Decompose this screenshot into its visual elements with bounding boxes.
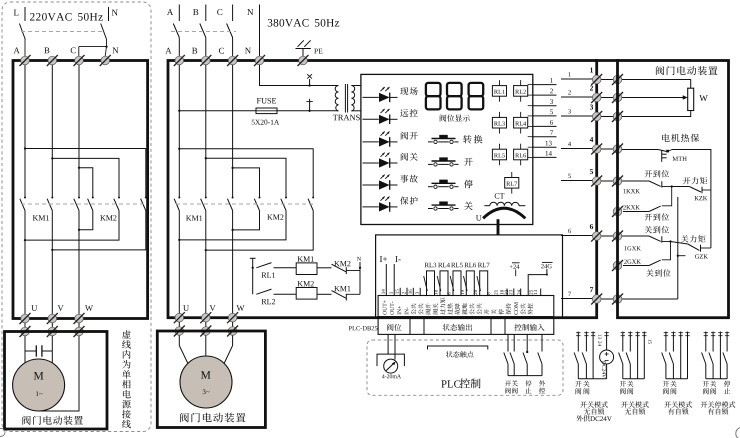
fuse feed from phase A [178,110,256,112]
terminal strip labels [383,298,533,315]
interlock NC contact KM1 [332,286,361,301]
motor1 enclosure box [5,332,108,430]
label KM1 (main) [186,216,202,221]
disconnect switch phase B [200,24,206,57]
dashed enclosure PLC control [367,340,563,395]
torque switch GZK [671,242,711,259]
terminal 7 (cabinet side) [591,294,602,305]
valve actuator box (right) [618,61,729,318]
wire V output (main) [205,211,207,318]
wire V output (phase B) [51,211,53,319]
wires between terminal columns [601,80,614,300]
label 380VAC 50Hz [268,19,339,27]
contactor KM1 contacts (left box, 3 poles) [20,197,80,211]
KM2 pole1 join C (main) [231,211,259,232]
LED indicator 阀开 [363,132,418,147]
stub wires to motor box [25,323,79,328]
wire phase C (main) [232,65,234,198]
contactor coil KM2 [296,281,317,299]
page marker circle bottom-right [736,427,740,438]
dashed enclosure: single-phase wiring region [2,2,151,432]
jumper A to KM2 pole3 [24,147,146,197]
terminal 2GXK (actuator side) [612,260,623,271]
wire W output (phase C) [78,211,80,319]
limit switch 1KXK [622,181,672,193]
PE earth symbol [296,40,323,56]
control input switch 开阀 [504,334,508,375]
label open-limit 开到位 [645,170,669,177]
wire row2 to pot wiper [622,95,688,99]
wire U output (main) [178,211,180,318]
terminal W (main bottom) [227,312,238,323]
wire W output (main) [232,211,234,318]
label RL1 [262,273,275,278]
terminal W (motor1 box) [74,326,85,337]
pushbutton 关 [428,202,473,211]
left contactor box (single-phase) [13,61,148,319]
LED indicator 现场 [363,87,418,102]
wire phase C down [78,65,80,198]
label valve position display [440,114,470,121]
label KM1 (left) [33,215,49,220]
label valve actuator (right box) [656,66,718,75]
transformer TRANS [333,84,361,120]
KM2 pole3 output join B [51,211,146,252]
pushbutton 转换 [428,135,483,144]
label close-torque 关力矩 [681,235,706,242]
terminal U (motor2 box) [174,326,185,337]
relay output contact RL6 [464,263,477,296]
bridge segment top edge [595,59,619,62]
terminal B (left box top) [47,55,58,66]
LED indicator 阀关 [363,153,418,168]
wire row3 to pot bottom [622,111,691,117]
wire phase B down [51,65,53,198]
LED indicator 保护 [363,197,418,212]
terminal strip box [378,296,554,317]
switch-mode wiring example 2 (no latch) [619,332,652,415]
terminal U (motor1 box) [20,326,31,337]
wire coil KM2 to KM1 NC [317,293,332,295]
terminal 2 (cabinet side) [591,92,602,103]
label motor2 valve actuator [180,413,246,423]
switch-mode wiring example 3 (latched) [662,332,692,415]
pushbutton 开 [428,158,473,166]
terminal 7 (actuator side) [612,294,623,305]
relay output contact RL7 [477,263,490,296]
label KM2 (left) [100,215,116,220]
contactor KM1 contacts (main box, 3 poles) [174,197,234,211]
switch-stop-mode wiring example 4 (latched) [701,332,735,415]
wire V to motor1 [51,336,53,363]
PLC interface box [376,235,563,319]
wire U output (phase A) [24,211,26,319]
jumper C to KM2 pole1 (main) [231,167,259,198]
wire phase A (main) [178,65,180,198]
phase tap symbol (coil circuit left) [250,258,256,262]
motor M1 (single phase) [13,359,65,411]
terminal 4 (actuator side) [612,144,623,155]
terminal W (motor2 box) [227,326,238,337]
LED indicator 事故 [363,175,418,190]
wire fuse to transformer [277,110,339,112]
terminal 6 (cabinet side) [591,231,602,242]
7-segment display digit 3 [469,83,484,110]
chassis tap X on N wire [307,74,312,86]
wire MTH to common [672,149,711,151]
stub wires control terminals [507,289,541,296]
terminal 2KXK (actuator side) [612,206,623,217]
label I+ / I- [380,256,401,262]
terminal N (main box) [254,55,265,66]
terminal V (motor1 box) [47,326,58,337]
wire phase A down [24,65,26,198]
display panel box [361,74,533,224]
note: dashed area is single-phase supply wiring (vertical text) [122,330,131,428]
wire N to transformer [260,65,339,86]
terminal A (left box top) [20,55,31,66]
terminal 3 (actuator side) [612,111,623,122]
torque switch KZK [672,187,711,201]
labels U V W (left box outputs) [31,305,93,311]
page marker circle bottom-left [0,428,5,436]
terminal 4 (cabinet side) [591,144,602,155]
terminal 2 (actuator side) [612,92,623,103]
labels U V W (main outputs) [183,305,244,311]
control input common bar [508,375,542,377]
terminal N (left box top) [100,55,111,66]
switch-mode wiring example 1 (no latch, ext DC24V) [574,332,614,422]
relay RL1 [492,80,506,102]
jumper B to KM2 pole2 [51,157,119,197]
jumper B to KM2 pole2 (main) [205,157,286,197]
+24 supply terminal [510,263,520,276]
mechanical linkage (dashed) KM1-KM2 main [176,203,316,205]
coil circuit left bus [252,262,254,294]
label close-limit 关到位 [645,226,669,233]
24G supply terminal [528,262,552,295]
mechanical linkage (dashed) main switch [171,31,236,33]
label RL2 [262,299,276,304]
wire phase B (main) [205,65,207,198]
relay RL4 [514,112,528,134]
wire U to motor2 [179,336,188,364]
relay RL5 [492,144,506,166]
control input switch 关阀 [510,334,514,375]
terminal 5 (actuator side) [612,176,623,187]
disconnect switch phase C [227,24,233,57]
motor M2 (three phase) [180,356,232,408]
stub wires to motor2 [179,322,232,327]
fuse FUSE 5X20-1A [252,98,279,125]
control input switch 外控 [538,334,542,375]
node N (coil circuit right) [357,257,361,294]
terminal A (main box) [174,55,185,66]
label PLC-DB25 [349,326,378,330]
label open-torque 开力矩 [683,177,707,184]
jumper A to KM2 pole3 (main) [178,148,313,198]
disconnect switch on N with branch to C [79,24,108,57]
KM2 pole3 join B (main) [205,211,314,252]
panel output wires 1 2 3 5 6 7 13 14 [528,78,557,157]
7-segment display digit 1 [426,83,441,110]
relay contact RL2 [256,289,296,294]
wire I+ to OUT+ [385,264,387,296]
limit switch 1GXK [622,236,671,250]
relay output contact RL5 [450,263,463,296]
actuator terminal row wires with numbers [561,68,593,299]
connector label row [378,318,554,334]
relay RL7 [505,172,519,194]
DB25 pin numbers (control group) [500,290,537,295]
main control cabinet box [168,61,597,318]
contactor KM2 contacts (left box, 3 poles) [88,197,147,211]
DB25 pin numbers (output group) [434,290,497,295]
DB25 pin numbers (left group) [382,289,419,294]
terminal B (main box) [200,55,211,66]
wire W to motor1 bottom [39,336,79,411]
potentiometer W [688,88,708,110]
motor2 enclosure box [157,331,265,428]
7-segment display digit 2 [447,83,462,110]
phase labels A B C N (main box inputs) [165,48,251,54]
valve position meter 4-20mA [377,334,404,378]
current transformer CT [483,193,525,218]
contactor coil KM1 [296,256,317,274]
label close-limit 2 关到位 [646,269,670,276]
terminal 1 (actuator side) [612,74,623,85]
label KM2 (main) [267,214,283,219]
terminal U (left box bottom) [20,313,31,324]
LED indicator 远控 [363,109,418,124]
torque common vertical [677,197,686,299]
terminal V (motor2 box) [200,326,211,337]
wire V to motor2 [205,336,207,357]
thick wire U from CT to PLC [497,219,500,235]
terminal C (left box top) [74,55,85,66]
terminal 1 (cabinet side) [591,74,602,85]
junction open-limit pair [671,185,673,187]
switch bars A B C N [179,5,259,22]
terminal C (main box) [227,55,238,66]
terminal 3 (cabinet side) [591,111,602,122]
junction close-limit pair [669,240,671,242]
terminal U (main bottom) [174,312,185,323]
pushbutton 停 [428,180,473,189]
disconnect switch phase A [173,24,179,57]
phase labels A B C N (left box inputs) [14,47,119,53]
terminal PE (main box) [298,55,309,66]
jumper C to KM2 pole1 [78,167,93,198]
terminal 5 (cabinet side) [591,176,602,187]
wire U to motor1 [24,336,26,363]
relay RL6 [514,144,528,166]
KM2 pole2 join A (main) [178,211,286,242]
source 380VAC labels A B C N [167,9,253,15]
contactor KM2 contacts (main box, 3 poles) [254,197,314,211]
mechanical linkage (dashed) L-N switch [21,31,104,33]
relay RL2 [514,80,528,102]
terminal V (left box bottom) [47,313,58,324]
label open-limit 2 开到位 [645,213,669,220]
thermal contact MTH [622,150,687,162]
wire coil KM1 to KM2 NC [317,267,332,269]
label motor thermal protection [662,134,699,142]
KM2 pole2 output join A [24,211,119,242]
wire N straight [259,21,261,56]
limit switch 2GXK [623,242,671,266]
label motor1 valve actuator [22,416,83,425]
terminal W (left box bottom) [74,313,85,324]
source 220VAC 50Hz labels L / N [14,7,118,21]
wire row1 to pot top [622,80,691,89]
limit switch 2KXK [623,187,672,212]
tap cross symbol on fuse wire [306,99,312,112]
mechanical linkage (dashed) KM1-KM2 left [21,203,147,205]
capacitor C (motor1 start cap) [25,345,52,356]
label U (CT conductor) [476,215,481,220]
label PLC control [441,378,480,388]
wire row7 common [622,298,678,300]
KM2 pole1 output join C [78,211,93,231]
relay RL3 [492,112,506,134]
control input switch 停止 [523,334,528,375]
interlock NC contact KM2 [332,261,361,274]
relay output contact RL3 [424,263,437,296]
terminal V (main bottom) [200,312,211,323]
common return vertical (right box) [710,149,712,248]
relay output contact RL4 [437,263,450,296]
control input labels [505,380,545,393]
wire I- to IN+ [393,264,395,296]
wire W to motor2 [224,336,233,364]
relay contact RL1 [256,263,296,268]
stub wires analog terminals [400,288,420,296]
disconnect switch on L [19,24,25,57]
status contacts bracket [428,346,488,358]
terminal 6 (actuator side) [612,231,623,242]
